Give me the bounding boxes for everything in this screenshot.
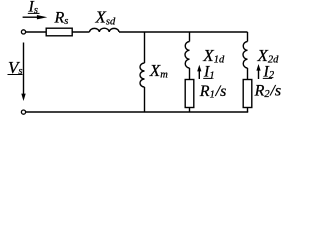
- svg-text:Xm: Xm: [149, 61, 168, 80]
- svg-text:R2/s: R2/s: [254, 83, 282, 101]
- svg-text:X1d: X1d: [202, 46, 225, 66]
- svg-text:R1/s: R1/s: [199, 83, 227, 101]
- svg-text:Rs: Rs: [54, 10, 69, 27]
- svg-text:Xsd: Xsd: [95, 7, 116, 27]
